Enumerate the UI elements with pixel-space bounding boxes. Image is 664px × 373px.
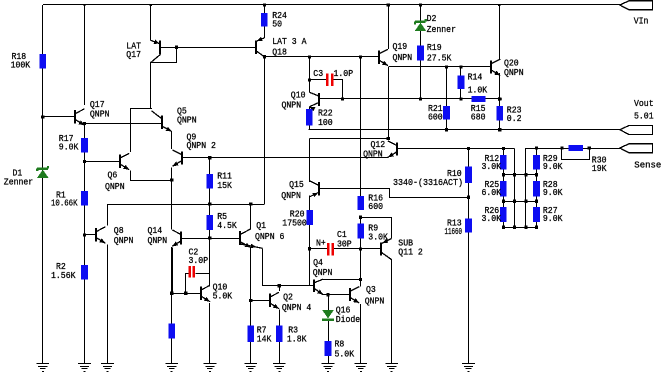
node Q18 collector (263, 55, 266, 58)
resistor R21 (443, 106, 450, 120)
svg-text:QNPN 2: QNPN 2 (187, 140, 216, 151)
svg-text:27.5K: 27.5K (427, 53, 452, 64)
label R25 (482, 179, 502, 198)
node Q2 base tap (249, 299, 252, 302)
svg-text:QNPN 6: QNPN 6 (255, 231, 284, 242)
wire x360 mid (360, 217, 362, 223)
svg-text:QNPN: QNPN (148, 235, 168, 246)
svg-text:9.0K: 9.0K (59, 142, 79, 153)
wire C2 left elbow (186, 274, 189, 294)
label R7 (257, 325, 272, 345)
resistor R14 (458, 76, 465, 90)
wire Q11 collector down (391, 260, 393, 364)
label R22 (318, 107, 333, 128)
wire LAT base-collector loop (151, 48, 177, 63)
transistor Q20 (491, 59, 500, 75)
wire Q10b emitter down (209, 303, 211, 364)
node sense R30 left (560, 146, 563, 149)
label R20 (282, 209, 307, 229)
svg-text:QNPN: QNPN (313, 267, 333, 278)
ground R7 (244, 364, 257, 372)
ground Q3 (354, 364, 367, 372)
node y99 R14 (459, 97, 462, 100)
zener D1 (37, 166, 49, 178)
node Q12 collector (387, 137, 390, 140)
node Vout R23 (498, 128, 501, 131)
capacitor C1 (328, 243, 333, 255)
wire Q10t base stub (319, 98, 342, 100)
node colA top (502, 147, 505, 150)
wire R7 column (250, 300, 252, 363)
svg-text:5.0K: 5.0K (213, 291, 233, 302)
node net r4 (513, 226, 516, 229)
node R13 top (467, 196, 470, 199)
wire mirror tie (131, 108, 152, 110)
label D1 (4, 168, 33, 188)
resistor R24 (261, 13, 268, 27)
label R24 (272, 10, 287, 30)
transistor Q17 LAT (151, 40, 161, 63)
node net r3 (502, 200, 505, 203)
svg-text:9.0K: 9.0K (543, 161, 563, 172)
svg-text:14K: 14K (257, 333, 272, 344)
node Q17 emitter (83, 122, 86, 125)
node R16 bottom (359, 216, 362, 219)
label C3 (313, 68, 353, 79)
wire R22 column (309, 107, 311, 130)
node y285 Q2c (278, 284, 281, 287)
label Q3 (365, 284, 385, 306)
label Q5 (177, 105, 197, 125)
svg-text:QNPN: QNPN (105, 181, 125, 192)
node base line R5 tap (208, 236, 211, 239)
svg-text:Q19: Q19 (393, 41, 408, 52)
svg-text:QNPN 4: QNPN 4 (282, 302, 312, 313)
wire Q20 emitter column (499, 73, 501, 130)
svg-text:600: 600 (428, 112, 443, 123)
resistor R17 (81, 138, 88, 152)
svg-text:QNPN: QNPN (90, 108, 110, 119)
label Q10 bottom (213, 282, 233, 302)
node rail Q20 (498, 4, 500, 6)
label R12 (482, 153, 502, 172)
resistor R28 (533, 181, 540, 197)
resistor R27 (533, 207, 540, 222)
wire Q3 emitter down (360, 304, 362, 363)
label R13 (445, 217, 463, 237)
wire R14 column (460, 67, 462, 99)
label Vout (634, 98, 654, 122)
resistor R13 (465, 218, 472, 232)
wire Q2 emitter down (279, 310, 281, 364)
wire Q15 emitter down (309, 196, 311, 286)
wire x360 low (360, 239, 362, 287)
resistor R10 (465, 167, 472, 184)
ground Q10b (204, 364, 217, 372)
svg-text:680: 680 (471, 112, 486, 123)
svg-text:3.0K: 3.0K (482, 213, 502, 224)
transistor Q10 bottom (201, 285, 210, 301)
transistor Q14 (172, 230, 181, 246)
svg-text:VIn: VIn (634, 15, 649, 26)
wire LAT collector down (150, 63, 152, 108)
node y204 Q1c (249, 202, 252, 205)
wire x171 mid (171, 180, 173, 229)
ground Q11 (385, 364, 398, 372)
svg-text:Q11 2: Q11 2 (398, 246, 423, 257)
transistor Q17 (75, 109, 85, 125)
label Q1 (255, 220, 284, 242)
wire Q18 base (177, 47, 256, 49)
wire R24 top (264, 5, 266, 13)
node Q8 base tap (83, 233, 86, 236)
wire Q1 collector up (250, 204, 252, 229)
wire Q11 base right (334, 248, 381, 250)
node y67 R21 (445, 65, 448, 68)
wire Q6 emitter elbow (131, 171, 172, 181)
wire y204 (108, 204, 265, 206)
wire Q14-Q1 base (181, 238, 240, 240)
wire Q6 base (85, 161, 121, 163)
wire Q5e to Q9c (171, 132, 173, 150)
node net r3 (524, 200, 527, 203)
svg-text:Vout: Vout (634, 98, 654, 109)
label R1 (51, 189, 78, 208)
label Sense (634, 159, 661, 170)
wire Q20 collector (499, 5, 501, 59)
svg-text:QNPN: QNPN (365, 296, 385, 307)
wire Q8 emitter down (107, 244, 109, 363)
wire R11-R5 column (209, 158, 211, 273)
wire Q2 collector up (279, 286, 281, 291)
transistor Q8 (96, 227, 105, 243)
node y57 x309 (308, 55, 311, 58)
label Q2 (282, 292, 312, 313)
transistor Q19 (379, 49, 388, 65)
label Q10 top (282, 90, 306, 111)
node y204 R5 (208, 202, 211, 205)
wire net colC (525, 148, 527, 227)
label Q15 (281, 179, 304, 201)
svg-text:Sense: Sense (634, 159, 661, 170)
wire C3 left (310, 79, 327, 81)
wire Q17 base (43, 116, 76, 118)
node net r4 (535, 226, 538, 229)
label R10 (393, 168, 463, 188)
svg-text:30P: 30P (337, 238, 352, 249)
node Q6 base tap (83, 160, 86, 163)
label Q8 (114, 225, 134, 246)
ground R3 (273, 364, 286, 372)
wire Q9 base line (182, 157, 389, 159)
transistor Q9 (173, 150, 183, 166)
node C3 tap (308, 78, 311, 81)
wire net colB (514, 149, 516, 228)
wire net colD (536, 148, 538, 227)
svg-text:9.0K: 9.0K (543, 187, 563, 198)
wire Q11 base left (310, 248, 327, 250)
wire D2 column (420, 5, 422, 99)
transistor Q1 (240, 229, 263, 248)
wire x171 low (171, 247, 173, 364)
svg-text:C3: C3 (313, 68, 323, 79)
wire Q19 emitter column (388, 67, 390, 139)
resistor R2 (81, 265, 88, 280)
wire Q14 collector up (171, 228, 173, 229)
node net r3 (535, 200, 538, 203)
wire D16 top (328, 295, 330, 310)
node Q10 base left (170, 292, 173, 295)
wire Q11 emitter jog (361, 218, 392, 239)
resistor R5 (206, 215, 213, 230)
wire Q17e to Q5 base (85, 123, 162, 125)
wire R24 to Q18 (264, 27, 266, 38)
resistor R11 (206, 174, 213, 188)
node y99 R23 (498, 97, 503, 101)
label R5 (217, 211, 237, 231)
label R27 (543, 205, 563, 224)
svg-text:QNPN: QNPN (282, 99, 302, 110)
resistor R23 (496, 106, 503, 121)
transistor Q10 top (309, 92, 319, 111)
wire Q6 collector up (130, 108, 132, 152)
label Q9 (187, 132, 216, 151)
transistor Q5 (152, 111, 172, 132)
label D2 (427, 13, 456, 35)
label Q4 (313, 257, 333, 278)
wire x84 lower (84, 124, 86, 364)
svg-text:Zenner: Zenner (427, 24, 456, 35)
svg-text:Diode: Diode (336, 314, 361, 325)
wire R10 column (468, 149, 470, 198)
label R16 (368, 192, 383, 212)
svg-text:R19: R19 (427, 42, 442, 53)
wire Q8 base (85, 234, 97, 236)
node net r4 (524, 226, 527, 229)
ground R8 (322, 364, 335, 372)
node C2 left tap (184, 292, 187, 295)
transistor Q2 (270, 292, 279, 308)
svg-text:5.0K: 5.0K (335, 348, 355, 359)
label R26 (482, 205, 502, 224)
wire x360 upper (360, 57, 362, 196)
wire Q18 emitter column (264, 57, 266, 204)
node y99 C3 (341, 97, 344, 100)
svg-text:Q3: Q3 (366, 284, 376, 295)
resistor R19 (417, 46, 424, 61)
node rail Q19 (387, 3, 390, 6)
node net r2 (502, 173, 505, 176)
node R11 tap (208, 156, 211, 159)
svg-text:6.0K: 6.0K (482, 187, 502, 198)
svg-text:N+: N+ (316, 238, 326, 249)
label R3 (287, 325, 307, 345)
svg-text:LAT 3 A: LAT 3 A (272, 36, 307, 47)
wire Q1 e2 column (262, 248, 264, 285)
svg-text:50: 50 (272, 19, 282, 30)
node x360 y249 (359, 247, 362, 250)
label R23 (507, 105, 522, 125)
wire C3 right elbow (334, 80, 343, 99)
label Q17 (90, 99, 110, 119)
svg-text:4.5K: 4.5K (217, 220, 237, 231)
label Q20 (504, 57, 524, 78)
node Vout R21 (445, 128, 448, 131)
wire Q1 e1 down (250, 248, 252, 301)
wire Q8 collector up (107, 204, 109, 225)
svg-text:5.01: 5.01 (634, 111, 654, 122)
node net r2 (513, 173, 516, 176)
resistor R30 (568, 145, 583, 151)
resistor R9 (357, 224, 364, 239)
node x171 y180 (170, 178, 173, 181)
wire y138 (310, 138, 389, 140)
capacitor C3 (327, 74, 332, 86)
node net r4 (502, 226, 505, 229)
wire D16 to R8 (328, 321, 330, 363)
wire net row2 (503, 174, 536, 176)
wire y99 (343, 98, 500, 100)
resistor R25 (500, 181, 507, 197)
wire Q4 collector (323, 279, 361, 281)
wire Vout rail (309, 129, 620, 131)
wire net colA (503, 149, 505, 228)
resistor R8 (325, 341, 332, 356)
svg-text:11660: 11660 (445, 226, 463, 237)
svg-text:QNPN: QNPN (177, 115, 197, 126)
node net r2 (524, 173, 527, 176)
node y99 R19 (419, 97, 422, 100)
label C2 (189, 246, 209, 266)
wire R21 column (446, 67, 448, 130)
node D16 tap (326, 293, 329, 296)
node Q12base R10 (467, 147, 470, 150)
label R2 (51, 261, 76, 281)
svg-text:QNPN: QNPN (281, 190, 301, 201)
wire LAT base to Q18 (161, 47, 256, 49)
svg-text:17500: 17500 (282, 217, 307, 228)
svg-text:3340-(3316ACT): 3340-(3316ACT) (393, 177, 463, 188)
wire R30 loop (562, 149, 590, 160)
svg-text:Q15: Q15 (289, 179, 304, 190)
svg-text:19K: 19K (592, 163, 607, 174)
connector Vout (620, 126, 653, 135)
transistor Q4 (314, 279, 323, 294)
transistor Q18 LAT3A (256, 37, 265, 57)
resistor R18 (40, 54, 47, 69)
wire Q19 collector (388, 5, 390, 49)
connector Vin (620, 1, 653, 10)
ground left rail (36, 364, 49, 372)
label R30 (592, 154, 607, 174)
node y57 x360 (359, 55, 362, 58)
node C1 tap (308, 247, 311, 250)
wire y67 (388, 66, 491, 68)
connector Sense (620, 144, 653, 153)
transistor Q3 (350, 287, 359, 303)
transistor Q6 (120, 153, 129, 169)
wire Q12 base line (397, 148, 514, 150)
node rail D2 (419, 3, 422, 6)
svg-text:R14: R14 (468, 72, 483, 83)
label Q11 (398, 238, 423, 258)
wire Q14 emitter down (172, 248, 174, 294)
svg-text:600: 600 (368, 201, 383, 212)
ground x107 (101, 364, 114, 372)
label Q18 (272, 36, 307, 58)
svg-text:Q17: Q17 (126, 49, 141, 60)
label Q6 (105, 170, 125, 192)
label R28 (543, 179, 563, 198)
node rail x150 (150, 4, 152, 6)
label R17 (59, 133, 79, 153)
transistor Q15 (310, 181, 319, 197)
svg-text:Zenner: Zenner (4, 177, 33, 188)
label R15 (471, 103, 486, 123)
wire Q9 emitter down (171, 168, 173, 181)
resistor R16 (357, 196, 364, 210)
node y67 R14 (459, 65, 462, 68)
node x360 y279 (359, 278, 362, 281)
label R29 (543, 153, 563, 172)
label Q19 (393, 41, 413, 63)
resistor R6 unlabeled (168, 324, 175, 339)
wire net row3 (503, 201, 536, 203)
label D16 (336, 305, 361, 326)
ground R13 (462, 364, 475, 372)
label Q12 (363, 139, 385, 159)
resistor R22 (306, 109, 313, 126)
resistor R12 (500, 155, 507, 170)
wire y57 (264, 56, 378, 58)
svg-text:1.0P: 1.0P (334, 68, 354, 79)
svg-text:100K: 100K (11, 60, 31, 71)
resistor R1 (81, 191, 88, 205)
wire x84 upper (84, 5, 86, 105)
svg-text:100: 100 (318, 117, 333, 128)
svg-text:D2: D2 (427, 13, 437, 24)
svg-text:Q6: Q6 (108, 170, 118, 181)
zener D2 (415, 19, 427, 31)
svg-text:1.0K: 1.0K (468, 85, 488, 96)
node sense R30 right (588, 146, 591, 149)
wire left rail (42, 5, 44, 364)
wire net row4 (503, 227, 536, 229)
svg-text:QNPN: QNPN (363, 148, 383, 159)
svg-text:9.0K: 9.0K (543, 213, 563, 224)
node rail x84 (83, 4, 85, 6)
label R14 (468, 72, 488, 96)
transistor Q12 (388, 141, 397, 157)
resistor R20 (306, 210, 313, 225)
svg-text:1.56K: 1.56K (51, 270, 76, 281)
wire R13 column (468, 197, 470, 363)
node net r2 (535, 173, 538, 176)
wire C2 right elbow (196, 274, 210, 287)
ground x84 rail (78, 364, 91, 372)
svg-text:1.8K: 1.8K (287, 333, 307, 344)
svg-text:3.0K: 3.0K (482, 161, 502, 172)
svg-text:Q2: Q2 (283, 292, 293, 303)
label R19 (427, 42, 452, 64)
transistor Q11 (381, 239, 392, 260)
ground x171 (165, 364, 178, 372)
wire Q10b base (172, 293, 201, 295)
node rail R24 (263, 3, 266, 6)
wire Q15 collector up (309, 138, 311, 182)
wire x309 upper (309, 57, 311, 92)
svg-text:10.66K: 10.66K (51, 197, 78, 208)
